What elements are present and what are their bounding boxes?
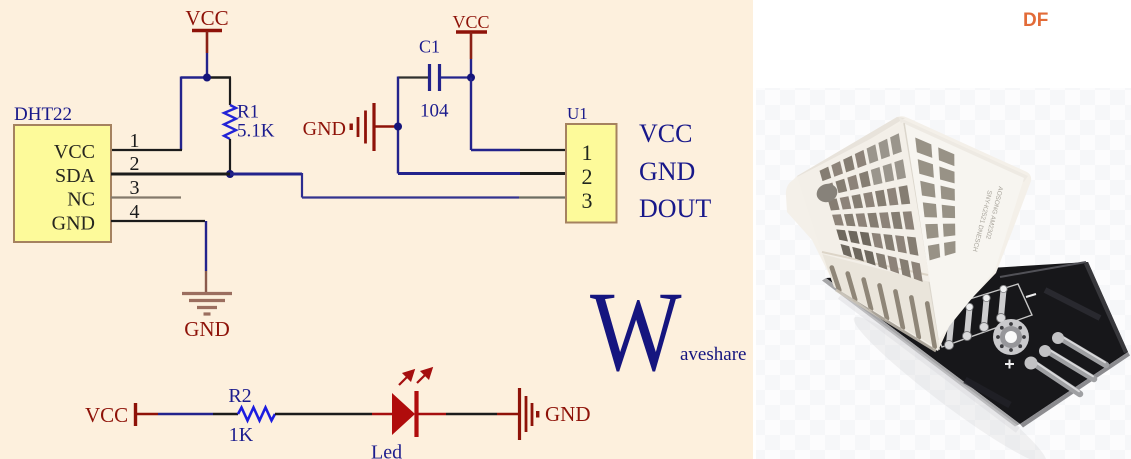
svg-text:GND: GND — [52, 213, 95, 235]
wire U1 pin2 lead — [520, 172, 566, 175]
LED arrow 2 — [417, 369, 432, 384]
PCB left-bottom edge highlight — [822, 278, 1020, 427]
wire DHT22 pin3 NC stub — [111, 196, 181, 198]
svg-text:NC: NC — [67, 189, 95, 211]
wire pin4 down to ground — [205, 221, 207, 271]
svg-text:GND: GND — [545, 402, 591, 426]
photo panel background — [753, 0, 1131, 459]
wire LED out red — [418, 413, 446, 416]
sensor vent grid — [820, 133, 923, 282]
svg-text:1K: 1K — [229, 424, 254, 446]
power VCC net symbol (top-left) — [185, 6, 228, 53]
PCB bottom soft shadow — [840, 296, 1018, 430]
capacitor C1 plates — [428, 64, 431, 91]
PCB top edge line — [1000, 262, 1086, 277]
svg-text:3: 3 — [130, 177, 140, 199]
resistor R2 body — [238, 408, 275, 421]
round component — [993, 319, 1029, 355]
svg-text:VCC: VCC — [54, 141, 95, 163]
svg-text:R2: R2 — [228, 385, 251, 407]
wire SDA jog down — [301, 173, 303, 198]
wire node C down — [470, 78, 472, 151]
PCB reflections — [1045, 290, 1100, 318]
wire to U1 pin1 — [471, 149, 520, 151]
sensor body silhouette — [786, 116, 1031, 351]
resistor R1 body — [224, 105, 236, 139]
PCB silkscreen outline — [928, 284, 1032, 347]
svg-text:3: 3 — [582, 188, 593, 213]
svg-text:GND: GND — [639, 157, 695, 186]
LED D1 triangle — [392, 393, 415, 435]
capacitor C1 left wire — [398, 76, 428, 78]
svg-text:VCC: VCC — [185, 6, 228, 30]
LED arrow 1 — [399, 371, 414, 386]
wire red to GND bars — [497, 413, 518, 416]
schematic background — [0, 0, 753, 459]
svg-text:C1: C1 — [419, 37, 440, 57]
wire red into LED — [372, 413, 393, 416]
svg-text:DF: DF — [1023, 10, 1048, 31]
header pin 1 — [1052, 332, 1106, 365]
wire VCC to R2 (blue part) — [158, 413, 213, 415]
ground symbol GND (bottom right) — [520, 388, 591, 440]
component DHT22 box — [14, 104, 111, 242]
sensor side text — [971, 186, 1004, 253]
component U1 box — [566, 104, 617, 223]
wire VCC2 stem to node C — [470, 59, 472, 78]
resistor R1 bottom lead — [229, 139, 231, 174]
photo checker background — [756, 88, 1131, 459]
header pin 2 — [1039, 345, 1094, 379]
silkscreen minus mark — [1026, 294, 1036, 297]
svg-text:2: 2 — [130, 153, 140, 175]
sensor contact shadow — [836, 290, 936, 351]
wire node A horizontal right — [207, 76, 231, 78]
svg-text:R1: R1 — [237, 102, 259, 123]
wire to R2 (black part) — [213, 413, 238, 415]
front face bottom shadow line — [822, 252, 928, 275]
node C junction — [467, 74, 475, 82]
sensor bottom louver band — [821, 250, 940, 350]
wire down to DHT22 pin1 — [180, 77, 182, 151]
LED cathode bar — [414, 391, 418, 437]
wire SDA to U1 pin3 — [302, 196, 519, 198]
ground stem — [205, 271, 207, 293]
wire node A horizontal left — [181, 76, 207, 78]
solder pads with sensor pins — [945, 285, 1008, 349]
PCB board — [826, 262, 1128, 424]
wire R2 to LED — [275, 413, 372, 415]
wire VCC stem to node A — [206, 53, 208, 78]
silkscreen plus mark — [1005, 360, 1014, 369]
svg-text:GND: GND — [303, 118, 346, 140]
wire C1 left down to node D — [397, 77, 399, 174]
svg-text:aveshare: aveshare — [680, 344, 746, 365]
svg-text:4: 4 — [130, 201, 140, 223]
wire VCC to R2 (red part) — [136, 413, 158, 416]
module shadow — [845, 306, 1055, 459]
svg-text:VCC: VCC — [85, 403, 128, 427]
header pin 3 — [1025, 357, 1081, 395]
sensor right face — [905, 124, 1024, 340]
svg-text:DOUT: DOUT — [639, 194, 711, 223]
ground symbol GND (below DHT22) — [182, 294, 232, 315]
sensor top-right band — [899, 118, 1028, 183]
svg-text:104: 104 — [420, 101, 449, 122]
node B junction on SDA — [226, 170, 234, 178]
svg-text:1: 1 — [130, 130, 140, 152]
power VCC (bottom rail) — [85, 403, 136, 427]
capacitor C1 right wire — [441, 76, 471, 78]
wire LED to GND black — [446, 413, 497, 415]
svg-text:2: 2 — [582, 164, 593, 189]
svg-text:5.1K: 5.1K — [237, 121, 275, 142]
node A junction — [203, 74, 211, 82]
svg-text:DHT22: DHT22 — [14, 104, 72, 125]
svg-text:VCC: VCC — [452, 12, 489, 32]
PCB top-right edge dark line — [1084, 262, 1128, 353]
svg-text:W: W — [590, 268, 682, 395]
sensor top band — [797, 117, 905, 181]
sensor side vents — [915, 138, 955, 261]
sensor front face — [797, 122, 930, 282]
wire U1 pin3 lead — [519, 196, 566, 198]
svg-text:VCC: VCC — [639, 119, 692, 148]
power VCC net symbol (top-middle) — [452, 12, 489, 59]
wire DHT22 pin4 lead — [111, 220, 205, 222]
wire node D to U1 pin2 — [398, 172, 520, 175]
wire U1 pin1 lead — [520, 149, 566, 151]
svg-text:GND: GND — [184, 317, 230, 341]
sensor lug hole — [814, 181, 840, 205]
node D junction — [394, 123, 402, 131]
wire SDA net to jog — [230, 173, 302, 176]
resistor R1 top lead — [229, 78, 231, 106]
svg-text:Led: Led — [371, 442, 402, 459]
ground symbol GND (left of C1) — [303, 103, 398, 151]
svg-text:1: 1 — [582, 140, 593, 165]
louver slots — [832, 268, 935, 347]
svg-text:U1: U1 — [567, 104, 588, 123]
svg-text:SDA: SDA — [55, 165, 96, 187]
sensor face crease — [904, 123, 938, 340]
wire DHT22 pin1 lead — [111, 149, 182, 151]
PCB bottom-right edge highlight — [1020, 352, 1130, 428]
wire DHT22 pin2 SDA lead — [111, 173, 230, 176]
